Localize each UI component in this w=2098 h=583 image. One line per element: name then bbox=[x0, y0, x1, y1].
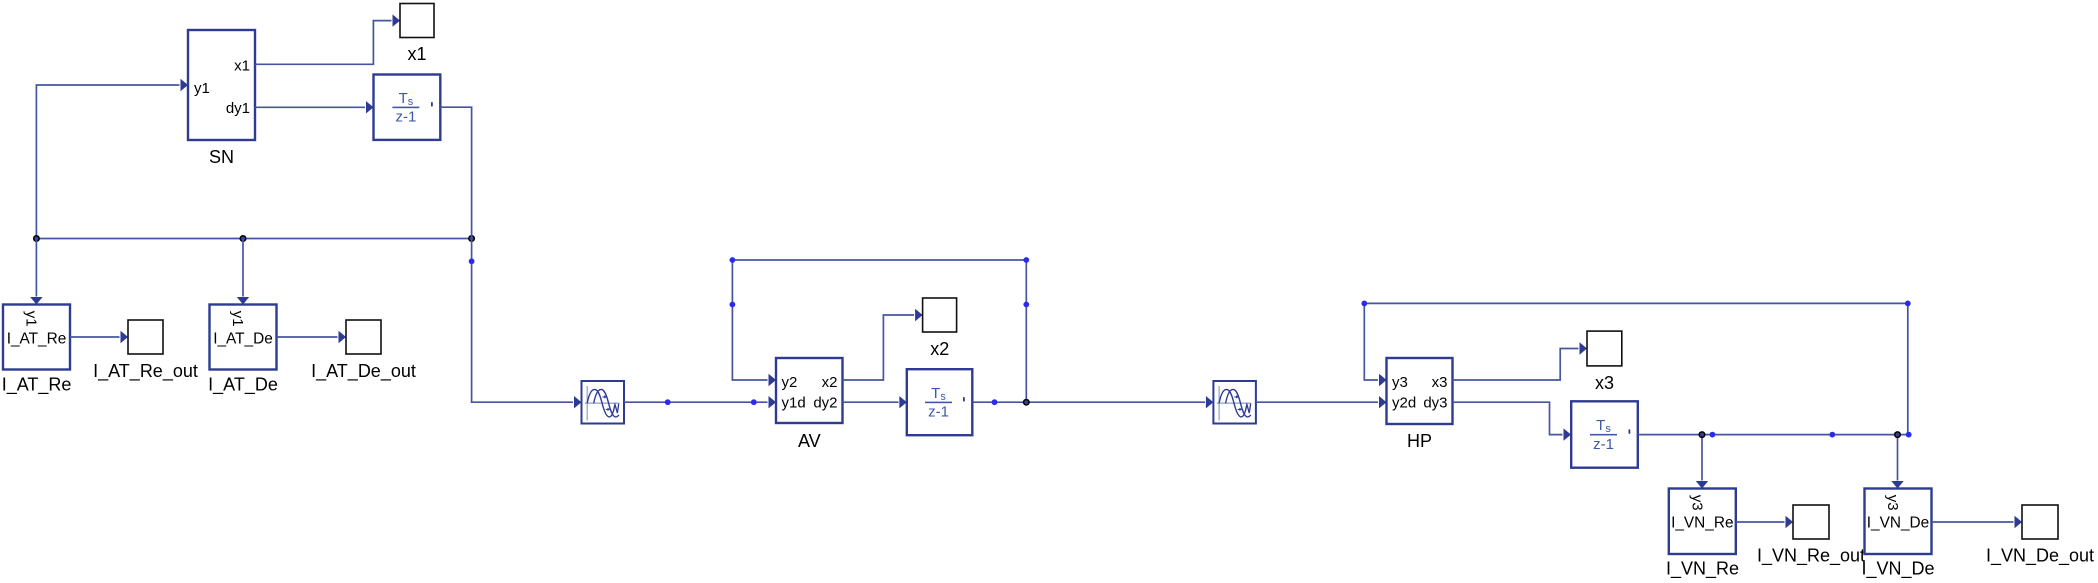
block I_AT_De bbox=[210, 305, 277, 370]
svg-text:x2: x2 bbox=[822, 374, 838, 391]
HP port label dy3 bbox=[1423, 394, 1447, 411]
svg-text:x1: x1 bbox=[234, 57, 250, 74]
terminator box I_AT_De_out bbox=[346, 320, 381, 354]
svg-text:z-1: z-1 bbox=[928, 404, 949, 421]
terminator box I_AT_Re_out bbox=[128, 320, 163, 354]
junction I_VN_Re branch bbox=[1699, 431, 1706, 438]
label I_VN_Re_out bbox=[1757, 546, 1865, 567]
svg-text:dy3: dy3 bbox=[1423, 394, 1447, 411]
wire limiter2 to HP y2d bbox=[1256, 396, 1387, 408]
vertex dot below bus bbox=[469, 258, 475, 264]
svg-text:I_VN_Re: I_VN_Re bbox=[1666, 559, 1739, 580]
wire I_VN_Re to out bbox=[1736, 516, 1793, 528]
svg-text:I_AT_De: I_AT_De bbox=[208, 374, 278, 395]
label I_AT_De_out bbox=[311, 361, 416, 382]
wire integrator3 out line bbox=[1638, 434, 1908, 436]
HP block name label bbox=[1407, 431, 1432, 451]
terminator box I_VN_Re_out bbox=[1793, 505, 1829, 539]
svg-text:x2: x2 bbox=[930, 339, 949, 359]
wire I_AT_De to out bbox=[277, 331, 347, 343]
SN block name label bbox=[209, 147, 234, 167]
svg-text:x1: x1 bbox=[407, 44, 426, 64]
svg-text:y1: y1 bbox=[194, 80, 210, 97]
label x1 bbox=[407, 44, 426, 64]
svg-text:x3: x3 bbox=[1432, 374, 1448, 391]
vertex dot AV loop right bbox=[1023, 302, 1029, 308]
svg-text:I_AT_Re_out: I_AT_Re_out bbox=[93, 361, 198, 382]
svg-text:y1: y1 bbox=[23, 311, 40, 327]
SN port label x1 bbox=[234, 57, 250, 74]
AV block name label bbox=[798, 431, 821, 451]
vertex dot HP loop left bbox=[1361, 301, 1367, 307]
label I_VN_De_out bbox=[1986, 546, 2094, 567]
AV port label y2 bbox=[782, 374, 798, 391]
discrete integrator Ts/(z-1) #1 bbox=[374, 75, 441, 140]
wire I_VN_De to out bbox=[1932, 516, 2023, 528]
svg-text:y3: y3 bbox=[1884, 495, 1901, 511]
vertex dot main line b bbox=[751, 399, 757, 405]
wire I_AT_Re to out bbox=[70, 331, 128, 343]
svg-text:z-1: z-1 bbox=[1593, 436, 1614, 453]
svg-text:dy1: dy1 bbox=[226, 100, 250, 117]
svg-text:SN: SN bbox=[209, 147, 234, 167]
svg-text:z-1: z-1 bbox=[395, 109, 416, 126]
svg-text:y3: y3 bbox=[1392, 374, 1408, 391]
saturation/sine block 1 bbox=[582, 381, 625, 424]
block I_AT_Re bbox=[3, 305, 70, 370]
AV port label dy2 bbox=[813, 394, 837, 411]
label I_AT_Re bbox=[2, 374, 72, 395]
discrete integrator Ts/(z-1) #3 bbox=[1571, 401, 1638, 467]
svg-text:HP: HP bbox=[1407, 431, 1432, 451]
block I_VN_Re bbox=[1669, 489, 1736, 555]
AV port label y1d bbox=[782, 394, 806, 411]
wire SN dy1 to integrator bbox=[255, 101, 374, 113]
subsystem block HP bbox=[1387, 358, 1453, 424]
svg-text:y2d: y2d bbox=[1392, 394, 1416, 411]
terminator box x1 bbox=[400, 4, 434, 38]
vertex dot AV loop top-right bbox=[1023, 257, 1029, 263]
wire AV dy2 to integrator2 bbox=[843, 396, 907, 408]
label I_AT_Re_out bbox=[93, 361, 198, 382]
vertex dot HP loop corner bbox=[1906, 432, 1912, 438]
saturation/sine block 2 bbox=[1213, 381, 1256, 424]
wire down to I_VN_De bbox=[1891, 435, 1903, 489]
svg-text:y1: y1 bbox=[229, 311, 246, 327]
label x3 bbox=[1595, 373, 1614, 393]
svg-text:x3: x3 bbox=[1595, 373, 1614, 393]
svg-text:dy2: dy2 bbox=[813, 394, 837, 411]
label I_AT_De bbox=[208, 374, 278, 395]
label x2 bbox=[930, 339, 949, 359]
subsystem block AV bbox=[776, 358, 843, 423]
wire HP dy3 to integrator3 bbox=[1453, 402, 1572, 441]
svg-text:I_VN_De: I_VN_De bbox=[1861, 559, 1934, 580]
SN port label y1 bbox=[194, 80, 210, 97]
vertex dot HP loop top-right bbox=[1905, 301, 1911, 307]
SN port label dy1 bbox=[226, 100, 250, 117]
subsystem block SN bbox=[188, 30, 255, 140]
wire limiter1 to AV y1d bbox=[624, 396, 776, 408]
wire AV x2 to scope x2 bbox=[843, 309, 923, 380]
vertex dot AV loop left bbox=[730, 302, 736, 308]
vertex dot after integrator2 bbox=[992, 399, 998, 405]
svg-text:I_VN_De: I_VN_De bbox=[1867, 514, 1929, 531]
wire HP feedback loop bbox=[1364, 303, 1908, 434]
junction I_VN_De branch bbox=[1894, 431, 1901, 438]
junction AV feedback bbox=[1023, 399, 1030, 406]
terminator box x2 bbox=[923, 298, 957, 332]
svg-text:I_AT_De_out: I_AT_De_out bbox=[311, 361, 416, 382]
junction bus-right bbox=[468, 235, 475, 242]
wire SN x1 to scope x1 bbox=[255, 14, 400, 64]
HP port label y3 bbox=[1392, 374, 1408, 391]
wire bus-left vertical + into SN y1 bbox=[36, 79, 188, 239]
wire bus down to I_AT_De bbox=[237, 239, 249, 305]
svg-text:AV: AV bbox=[798, 431, 821, 451]
terminator box I_VN_De_out bbox=[2022, 505, 2058, 539]
svg-text:y2: y2 bbox=[782, 374, 798, 391]
wire AV feedback loop bbox=[732, 260, 1026, 402]
svg-text:I_VN_Re_out: I_VN_Re_out bbox=[1757, 546, 1865, 567]
wire integrator2 out to limiter2 bbox=[972, 396, 1213, 408]
svg-text:y1d: y1d bbox=[782, 394, 806, 411]
block I_VN_De bbox=[1865, 489, 1932, 555]
HP port label x3 bbox=[1432, 374, 1448, 391]
vertex dot main line a bbox=[665, 399, 671, 405]
svg-text:I_AT_Re: I_AT_Re bbox=[7, 330, 67, 347]
HP port label y2d bbox=[1392, 394, 1416, 411]
svg-text:I_AT_De: I_AT_De bbox=[213, 330, 273, 347]
label I_VN_De bbox=[1861, 559, 1934, 580]
svg-text:I_VN_Re: I_VN_Re bbox=[1671, 514, 1733, 531]
wire bus down to I_AT_Re bbox=[30, 239, 42, 305]
junction bus-middle bbox=[240, 235, 247, 242]
svg-text:y3: y3 bbox=[1688, 495, 1705, 511]
wire bus horizontal bbox=[36, 238, 471, 240]
terminator box x3 bbox=[1587, 331, 1622, 366]
wire HP x3 to scope x3 bbox=[1453, 342, 1588, 380]
wire integrator1 out to limiter1 bbox=[440, 107, 581, 408]
discrete integrator Ts/(z-1) #2 bbox=[907, 369, 973, 435]
wire down to I_VN_Re bbox=[1696, 435, 1708, 489]
label I_VN_Re bbox=[1666, 559, 1739, 580]
vertex dot AV loop top-left bbox=[730, 257, 736, 263]
svg-text:I_AT_Re: I_AT_Re bbox=[2, 374, 72, 395]
svg-text:I_VN_De_out: I_VN_De_out bbox=[1986, 546, 2094, 567]
junction bus-left bbox=[33, 235, 40, 242]
vertex dot out line a bbox=[1710, 432, 1716, 438]
AV port label x2 bbox=[822, 374, 838, 391]
vertex dot out line b bbox=[1829, 432, 1835, 438]
